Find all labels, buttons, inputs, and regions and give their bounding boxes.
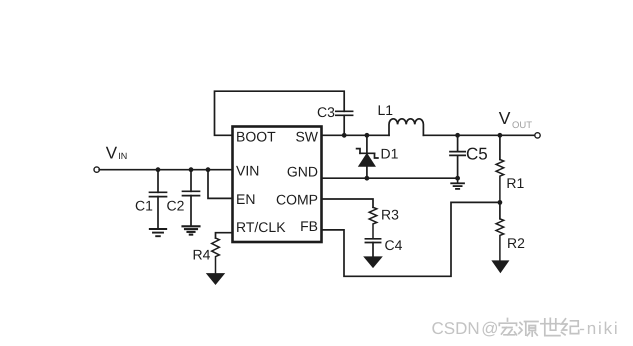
diode D1 bbox=[357, 135, 378, 178]
svg-text:SW: SW bbox=[295, 129, 318, 145]
ground R4 arrow bbox=[208, 274, 224, 284]
capacitor C2 bbox=[183, 170, 200, 226]
svg-text:-niki: -niki bbox=[579, 319, 619, 338]
label VOUT bbox=[499, 108, 532, 131]
svg-text:C2: C2 bbox=[167, 198, 185, 214]
svg-text:IN: IN bbox=[118, 151, 127, 161]
watermark CSDN bbox=[432, 319, 620, 338]
watermark CJK glyphs bbox=[499, 318, 578, 336]
svg-text:GND: GND bbox=[287, 164, 318, 180]
node C1 junction bbox=[156, 167, 161, 172]
resistor R3 bbox=[369, 207, 377, 238]
resistor R1 bbox=[496, 135, 504, 202]
node VOUT terminal bbox=[535, 133, 540, 138]
svg-text:C3: C3 bbox=[317, 104, 335, 120]
wire FB feedback bbox=[322, 202, 500, 276]
svg-text:L1: L1 bbox=[378, 102, 394, 118]
capacitor C3 bbox=[336, 111, 353, 135]
svg-text:RT/CLK: RT/CLK bbox=[236, 219, 286, 235]
node R1 junction bbox=[498, 133, 503, 138]
node FB junction bbox=[498, 200, 503, 205]
wire COMP branch bbox=[322, 199, 374, 207]
svg-text:R4: R4 bbox=[193, 247, 211, 263]
wire EN branch bbox=[208, 170, 233, 199]
svg-text:VIN: VIN bbox=[236, 163, 259, 179]
svg-text:C5: C5 bbox=[466, 144, 488, 163]
label VIN bbox=[106, 143, 127, 162]
wire SW rail bbox=[322, 134, 390, 136]
node C2 junction bbox=[189, 167, 194, 172]
capacitor C1 bbox=[150, 170, 167, 229]
svg-text:R2: R2 bbox=[507, 235, 525, 251]
IC U1 regulator body bbox=[233, 127, 322, 243]
svg-text:OUT: OUT bbox=[512, 120, 532, 131]
svg-text:C1: C1 bbox=[135, 198, 153, 214]
node VIN terminal bbox=[94, 167, 99, 172]
ground R2 arrow bbox=[493, 261, 508, 272]
wire RT/CLK branch bbox=[216, 233, 233, 238]
capacitor C4 bbox=[365, 239, 380, 257]
svg-text:R3: R3 bbox=[381, 207, 399, 223]
inductor L1 bbox=[389, 119, 423, 136]
svg-text:BOOT: BOOT bbox=[236, 129, 276, 145]
ground C4 arrow bbox=[365, 257, 381, 267]
svg-text:R1: R1 bbox=[506, 175, 524, 191]
svg-text:V: V bbox=[106, 143, 118, 162]
svg-text:FB: FB bbox=[300, 218, 318, 234]
node C3-SW junction bbox=[342, 133, 347, 138]
svg-text:COMP: COMP bbox=[276, 192, 318, 208]
svg-text:EN: EN bbox=[236, 191, 255, 207]
ground C2 bbox=[183, 226, 200, 234]
svg-text:C4: C4 bbox=[385, 237, 403, 253]
node D1-SW junction bbox=[365, 133, 370, 138]
node C5-GND junction bbox=[455, 176, 460, 181]
wire BOOT loop bbox=[215, 91, 345, 135]
svg-text:@: @ bbox=[481, 319, 498, 338]
ground C1 bbox=[150, 229, 166, 236]
svg-text:CSDN: CSDN bbox=[432, 319, 480, 338]
svg-text:V: V bbox=[499, 108, 511, 128]
node C5 junction bbox=[455, 133, 460, 138]
resistor R2 bbox=[496, 202, 504, 261]
resistor R4 bbox=[212, 238, 220, 274]
wire GND rail bbox=[322, 177, 458, 179]
capacitor C5 bbox=[450, 135, 465, 178]
wire input rail bbox=[99, 169, 232, 171]
wire output rail bbox=[423, 134, 534, 136]
node EN junction bbox=[206, 167, 211, 172]
node D1-GND junction bbox=[365, 176, 370, 181]
ground C5 bbox=[451, 178, 464, 189]
svg-text:D1: D1 bbox=[381, 146, 399, 162]
